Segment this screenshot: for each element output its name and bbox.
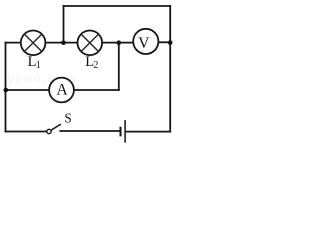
svg-text:V: V [138,35,150,52]
svg-text:A: A [56,82,68,99]
svg-text:S: S [64,110,71,125]
